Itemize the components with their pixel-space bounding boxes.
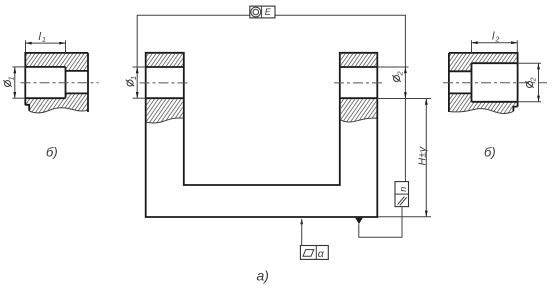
left arm break wavy line [147, 118, 183, 123]
centerline [21, 82, 99, 84]
svg-text:1: 1 [129, 76, 138, 80]
l2 extension lines [471, 40, 473, 53]
left arm hole edges [146, 66, 184, 68]
svg-text:H±γ: H±γ [417, 146, 429, 165]
phi2 dimension arrows [404, 67, 407, 73]
flatness leader arrow [300, 218, 303, 224]
coaxiality symbol [251, 7, 261, 17]
big bore edges [472, 62, 518, 64]
bottom notch [513, 107, 517, 112]
svg-text:n: n [398, 187, 408, 192]
svg-text:1: 1 [42, 37, 46, 44]
right edge [87, 53, 89, 112]
datum triangle on bottom face [355, 218, 363, 224]
l2 arrows [472, 41, 478, 44]
phi1 label [3, 76, 15, 86]
svg-text:2: 2 [395, 71, 404, 77]
break wavy line [29, 108, 88, 113]
left hole centerline [140, 82, 190, 84]
parallelism symbol [398, 197, 405, 205]
phi2 extension lines [518, 62, 541, 64]
H bottom extension line [378, 216, 431, 218]
block outline: top edge [449, 52, 518, 54]
right arm lower hatch with break [341, 99, 377, 122]
flatness leader wire [301, 219, 303, 245]
phi2 label [525, 77, 537, 88]
left edge [24, 52, 26, 105]
bottom notch [25, 105, 29, 111]
left arm lower hatch with break [147, 99, 183, 123]
lower hatch region with break [25, 93, 88, 113]
phi1 label [126, 76, 138, 86]
svg-text:E: E [265, 7, 272, 17]
wire leader from coaxiality frame to phi1 and phi2 dimension lines [137, 15, 405, 181]
svg-text:2: 2 [495, 37, 500, 44]
phi2 arrows [537, 63, 540, 69]
svg-text:а): а) [257, 268, 269, 284]
l1 extension lines [25, 40, 27, 52]
svg-text:2: 2 [528, 77, 537, 83]
phi2 dimension extension lines [377, 66, 408, 68]
lower hatch region with break [449, 93, 518, 113]
right edge [517, 52, 519, 107]
flatness symbol [303, 250, 314, 257]
node U-shaped body outline [146, 53, 378, 217]
phi1 dimension extension lines [133, 66, 146, 68]
l1 arrows [26, 42, 32, 45]
right hole centerline [334, 82, 385, 84]
phi2 dimension line [538, 63, 540, 102]
right arm hole edges [340, 66, 378, 68]
upper hatch region [25, 53, 88, 71]
phi1 extension lines [12, 66, 25, 68]
small bore edges [449, 70, 472, 72]
phi1 dimension arrows [136, 67, 139, 73]
right arm break wavy line [341, 118, 377, 122]
centerline [443, 82, 547, 84]
flatness tolerance frame [300, 246, 328, 260]
phi2 label [392, 71, 404, 82]
phi1 dimension line [14, 67, 16, 98]
coaxiality tolerance frame U1 [250, 6, 275, 18]
l1 dimension line [26, 42, 66, 44]
big bore edges [25, 66, 65, 68]
left arm upper hatch [147, 54, 183, 67]
block outline: top edge [25, 52, 88, 54]
upper hatch region [449, 53, 518, 71]
bore step face [65, 67, 67, 98]
svg-text:1: 1 [6, 76, 15, 80]
l2 dimension line [472, 42, 518, 44]
bore step face [471, 63, 473, 102]
small bore edges [66, 70, 89, 72]
phi1 arrows [13, 67, 16, 73]
right arm upper hatch [341, 54, 377, 67]
H dimension line [425, 99, 427, 217]
break wavy line [449, 109, 514, 114]
H dimension arrows [425, 99, 428, 105]
svg-text:α: α [318, 248, 325, 260]
left edge [448, 53, 450, 112]
parallelism tolerance frame [395, 182, 409, 207]
svg-text:б): б) [46, 145, 58, 160]
wire from frame to datum triangle [359, 207, 402, 238]
svg-text:б): б) [484, 145, 496, 160]
